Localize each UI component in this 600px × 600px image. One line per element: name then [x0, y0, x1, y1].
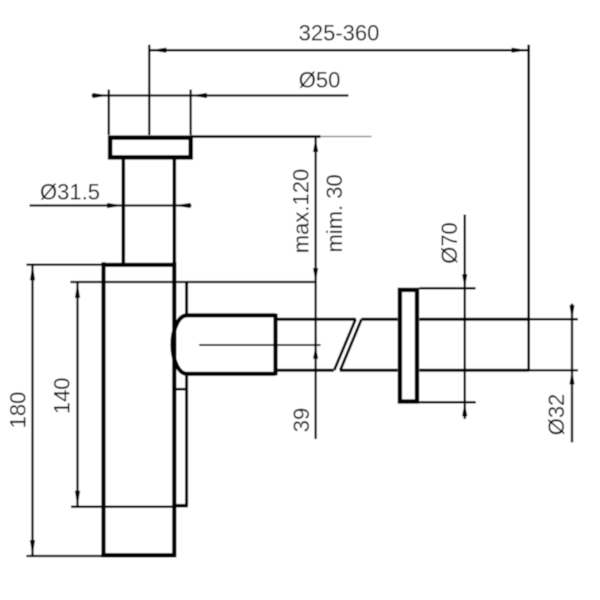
- svg-text:180: 180: [6, 392, 31, 429]
- small tube bottom edge segments: [276, 369, 334, 372]
- shoulder line (body top reference): [70, 281, 315, 283]
- arrow O32 bottom: [569, 370, 574, 384]
- inlet pipe left edge: [122, 160, 126, 265]
- body bottom: [101, 553, 174, 557]
- socket end line: [273, 314, 277, 376]
- break diagonal 1: [334, 319, 355, 370]
- svg-text:Ø31.5: Ø31.5: [40, 180, 100, 205]
- shell tick bottom: [172, 504, 188, 508]
- arrow O32 top: [569, 305, 574, 319]
- arrow O70 bottom: [462, 402, 467, 416]
- centre line of outlet: [199, 344, 320, 346]
- extension line O50 right: [189, 90, 191, 136]
- arrow O70 top: [462, 274, 467, 288]
- arrow 39 top: [313, 346, 318, 359]
- 180 extension top: [26, 263, 102, 265]
- body left edge: [101, 262, 105, 557]
- dimension line O50: [92, 94, 349, 96]
- arrow O50 left: [93, 93, 109, 98]
- arrow right of 325-360: [512, 48, 529, 53]
- svg-text:Ø70: Ø70: [437, 222, 462, 264]
- inlet pipe right edge: [173, 160, 177, 265]
- dimension line O31.5: [30, 204, 192, 206]
- wall line (right extension): [527, 45, 530, 372]
- arrow 180 top: [30, 265, 35, 281]
- dimension line 325-360: [149, 49, 528, 51]
- O32 dimension line: [571, 304, 573, 443]
- O32 extension top: [529, 318, 578, 320]
- svg-text:325-360: 325-360: [299, 21, 380, 46]
- max.120 / 39 dimension line: [314, 138, 316, 439]
- body right edge: [172, 262, 176, 557]
- wall flange O70: [400, 290, 417, 402]
- shell tick mid: [172, 388, 188, 391]
- svg-text:mim. 30: mim. 30: [322, 174, 347, 252]
- svg-text:Ø50: Ø50: [299, 68, 341, 93]
- small tube top edge segments: [276, 318, 356, 321]
- extension line O50 left: [108, 90, 110, 136]
- arrow left of 325-360: [149, 48, 166, 53]
- svg-text:140: 140: [50, 377, 75, 414]
- big tube with rounded cap: [173, 315, 276, 373]
- outer shell right lower: [185, 375, 188, 506]
- O32 extension bottom: [529, 369, 578, 371]
- arrow max120 bottom: [313, 268, 318, 282]
- extension line left (pipe centre): [148, 45, 150, 135]
- 180 extension bottom: [26, 555, 102, 557]
- outer shell right upper: [185, 283, 188, 314]
- arrow max120 top: [313, 138, 318, 152]
- arrow O31.5 right: [174, 203, 190, 208]
- flange top escutcheon: [110, 138, 191, 158]
- faint reference line: [321, 136, 372, 138]
- arrow 140 bottom: [75, 491, 80, 507]
- svg-text:max.120: max.120: [288, 169, 313, 253]
- arrow 180 bottom: [30, 540, 35, 556]
- arrow O50 right: [191, 93, 207, 98]
- arrow 140 top: [75, 283, 80, 299]
- svg-text:39: 39: [289, 408, 314, 432]
- 180 dimension line: [31, 265, 33, 556]
- O70 extension bottom: [419, 401, 476, 403]
- O70 dimension line: [464, 215, 466, 420]
- flange-top reference line to right: [191, 135, 321, 138]
- cup joint line: [71, 506, 172, 508]
- body rim top: [102, 263, 176, 267]
- svg-text:Ø32: Ø32: [544, 394, 569, 436]
- break diagonal 2: [340, 319, 361, 370]
- O70 extension top: [419, 287, 475, 289]
- 140 dimension line: [76, 283, 78, 507]
- arrow O31.5 left: [107, 203, 123, 208]
